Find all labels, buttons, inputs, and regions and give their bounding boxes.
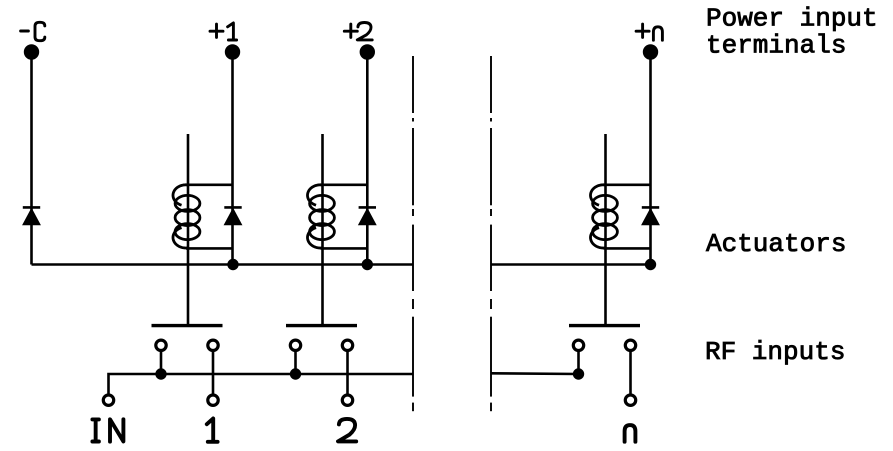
label 1 (port)	[207, 418, 218, 441]
power terminal +2	[360, 44, 375, 59]
wire -C feed	[30, 52, 33, 265]
wire coil-to-diode top unit 2	[321, 184, 368, 187]
wire right contact to output port unit 2	[346, 352, 349, 394]
actuator return bus right segment	[491, 263, 651, 266]
diode D2	[359, 207, 376, 224]
wire +n feed	[649, 52, 652, 265]
wire coil-to-diode top unit 1	[186, 184, 233, 187]
break line right (dash-dot)	[490, 56, 492, 411]
diode on -C line	[23, 207, 40, 224]
wire coil-to-diode bottom unit n	[604, 247, 651, 250]
junction dot on actuator bus unit n	[645, 259, 656, 270]
RF input bus right segment	[491, 372, 579, 375]
svg-text:Actuators: Actuators	[706, 229, 846, 259]
contact circle left unit 2	[290, 340, 300, 350]
junction dot on RF bus unit 1	[155, 368, 166, 379]
svg-text:Power input: Power input	[706, 3, 878, 33]
RF switch plate unit n	[569, 324, 640, 327]
contact circle right unit 2	[342, 340, 352, 350]
label +2	[344, 23, 372, 40]
output port circle 1	[208, 395, 218, 405]
wire left contact drop unit 1	[160, 352, 163, 374]
relay coil Ln	[591, 185, 618, 248]
power terminal -C	[24, 44, 39, 59]
RF switch plate unit 2	[286, 324, 357, 327]
wire +2 feed	[366, 52, 369, 265]
wire coil-to-diode bottom unit 2	[321, 247, 368, 250]
label 2 (port)	[338, 419, 356, 442]
junction dot on RF bus unit n	[573, 368, 584, 379]
junction dot on actuator bus unit 1	[227, 259, 238, 270]
actuator return bus left segment	[32, 263, 414, 266]
relay unit n	[569, 134, 659, 405]
wire +1 feed	[231, 52, 234, 265]
IN port circle	[103, 395, 113, 405]
power terminal +1	[225, 44, 240, 59]
label Power input terminals	[706, 3, 878, 60]
relay unit 2	[286, 134, 376, 405]
RF switch plate unit 1	[152, 324, 223, 327]
diode D1	[224, 207, 241, 224]
contact circle right unit n	[625, 340, 635, 350]
coil stub / actuator wire unit 2	[321, 134, 324, 324]
label +n	[636, 24, 662, 40]
output port circle n	[625, 395, 635, 405]
wire coil-to-diode bottom unit 1	[186, 247, 233, 250]
RF input bus left segment	[109, 374, 414, 394]
power terminal +n	[643, 44, 658, 59]
output port circle 2	[342, 395, 352, 405]
relay coil L2	[308, 185, 335, 248]
junction dot on RF bus unit 2	[290, 368, 301, 379]
label +1	[210, 23, 237, 40]
contact circle right unit 1	[208, 340, 218, 350]
contact circle left unit 1	[156, 340, 166, 350]
relay unit 1	[152, 134, 242, 405]
wire right contact to output port unit 1	[212, 352, 215, 394]
break line left (dash-dot)	[412, 56, 414, 411]
junction dot on actuator bus unit 2	[362, 259, 373, 270]
wire coil-to-diode top unit n	[604, 184, 651, 187]
label n (port)	[625, 425, 636, 442]
wire left contact drop unit 2	[294, 352, 297, 374]
label -C	[21, 22, 45, 40]
wire left contact drop unit n	[577, 352, 580, 374]
relay coil L1	[173, 185, 200, 248]
wire right contact to output port unit n	[629, 352, 632, 394]
svg-text:RF inputs: RF inputs	[705, 337, 845, 367]
diode Dn	[642, 207, 659, 224]
contact circle left unit n	[573, 340, 583, 350]
svg-text:terminals: terminals	[706, 31, 846, 61]
label IN (port)	[92, 419, 123, 441]
coil stub / actuator wire unit n	[604, 134, 607, 324]
coil stub / actuator wire unit 1	[187, 134, 190, 324]
